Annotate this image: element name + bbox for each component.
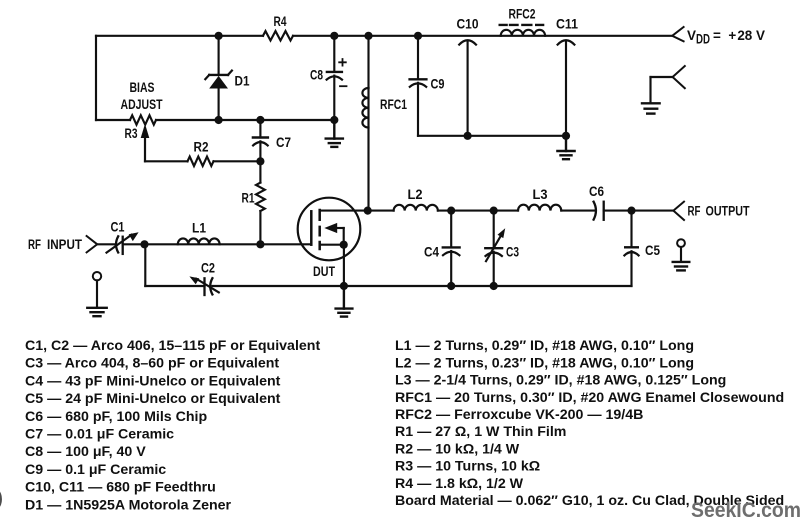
svg-text:DD: DD [696,32,710,47]
transistor DUT body-source tie [343,228,345,245]
node dot C7 bottom / R2-R1 junction [256,157,264,165]
svg-text:C1, C2 — Arco 406, 15–115 pF o: C1, C2 — Arco 406, 15–115 pF or Equivale… [25,338,320,354]
capacitor C2 (variable) [189,276,218,295]
svg-text:RFC1 — 20 Turns, 0.30″ ID, #20: RFC1 — 20 Turns, 0.30″ ID, #20 AWG Ename… [395,390,784,406]
svg-text:C11: C11 [556,17,578,32]
node dot drain/RFC1 [364,207,372,215]
wire L2 to L3 [438,210,518,212]
svg-text:C6: C6 [589,184,604,199]
svg-text:R1: R1 [242,191,255,206]
svg-text:C4: C4 [424,244,439,259]
capacitor C1 (variable) [107,232,139,254]
svg-text:C7: C7 [276,135,291,150]
resistor R4 [263,31,293,40]
ground chassis connector [642,103,660,113]
node dot C8 bottom [330,116,338,124]
wire DUT source down [343,245,345,286]
svg-text:RF: RF [28,237,41,252]
svg-text:C8 — 100 μF, 40 V: C8 — 100 μF, 40 V [25,444,146,460]
svg-text:V: V [687,28,696,43]
svg-text:R3: R3 [125,126,138,141]
svg-text:D1: D1 [235,74,250,89]
diode D1 (zener) [205,36,232,120]
node dot source at rail [340,282,348,290]
wire top rail right segment [293,35,672,37]
wire C2 rail left [145,285,204,287]
wire L3 to C6 [561,210,594,212]
node dot C4 bottom [447,282,455,290]
capacitor C7 [253,120,268,161]
svg-text:R2: R2 [194,140,209,155]
C8 polarity minus [340,85,347,87]
node dot C3 bottom [490,282,498,290]
svg-text:OUTPUT: OUTPUT [706,203,751,218]
node dot RFC1 top [364,32,372,40]
node dot C7 top [256,116,264,124]
node dot C3 top [490,207,498,215]
svg-text:C9 — 0.1 μF Ceramic: C9 — 0.1 μF Ceramic [25,462,166,478]
transistor DUT channel segments [318,210,321,249]
capacitor C8 [327,36,342,120]
svg-text:R2 — 10 kΩ, 1/4 W: R2 — 10 kΩ, 1/4 W [395,441,520,457]
svg-text:C3 — Arco 404, 8–60 pF or Equi: C3 — Arco 404, 8–60 pF or Equivalent [25,356,279,372]
input shield terminal circle [93,272,101,280]
transistor DUT body arrow [332,227,344,229]
ground below C8 [326,120,343,147]
svg-text:C7 — 0.01 μF Ceramic: C7 — 0.01 μF Ceramic [25,427,174,443]
wire C1 node down to C2 rail [144,244,146,286]
transistor DUT gate bar [310,211,313,244]
wire bias bottom to C8 [156,119,334,121]
op-amp DUT MOSFET circle [298,198,361,261]
node dot C10 bottom [464,132,472,140]
ground input shield [87,308,106,316]
svg-text:L1 — 2 Turns, 0.29″ ID, #18 AW: L1 — 2 Turns, 0.29″ ID, #18 AWG, 0.10″ L… [395,338,694,354]
node dot D1 bottom [215,116,223,124]
wire drain node to L2 [368,210,394,212]
svg-text:D1 — 1N5925A Motorola Zener: D1 — 1N5925A Motorola Zener [25,498,232,514]
svg-text:R4 — 1.8 kΩ, 1/2 W: R4 — 1.8 kΩ, 1/2 W [395,476,524,492]
svg-text:RFC2 — Ferroxcube VK-200 — 19/: RFC2 — Ferroxcube VK-200 — 19/4B [395,407,643,423]
svg-text:BIAS: BIAS [130,80,155,95]
node dot C5 top [627,207,635,215]
R3 wiper arrow [144,133,146,161]
svg-text:L2 — 2 Turns, 0.23″ ID, #18 AW: L2 — 2 Turns, 0.23″ ID, #18 AWG, 0.10″ L… [395,355,694,371]
svg-text:INPUT: INPUT [47,237,83,252]
svg-text:C3: C3 [506,244,519,259]
svg-text:C6 — 680 pF, 100 Mils Chip: C6 — 680 pF, 100 Mils Chip [25,409,207,425]
svg-text:DUT: DUT [313,264,336,279]
parts list right column [395,338,784,509]
svg-text:C10, C11 — 680 pF Feedthru: C10, C11 — 680 pF Feedthru [25,480,216,496]
svg-text:C2: C2 [201,260,215,275]
wire top rail left segment [96,35,263,37]
wire C1 to gate [123,243,312,245]
RFC2 shield dashes [500,24,543,26]
label BIAS ADJUST [121,80,164,112]
node dot R1 bottom [256,240,264,248]
svg-text:C1: C1 [111,220,125,235]
wire C9 bottom rail [418,135,566,137]
svg-text:R3 — 10 Turns, 10 kΩ: R3 — 10 Turns, 10 kΩ [395,459,540,475]
svg-text:): ) [0,485,3,510]
inductor L2 [394,205,438,211]
ground below C11 [557,136,574,159]
capacitor C5 [624,211,638,286]
VDD terminal arrow [672,27,683,41]
svg-text:R4: R4 [274,14,287,29]
svg-text:RF: RF [688,203,701,218]
wire bias box left side [95,36,97,120]
svg-text:ADJUST: ADJUST [121,97,164,112]
svg-text:C10: C10 [457,17,479,32]
svg-text:L3: L3 [533,187,548,202]
capacitor C9 [410,36,427,136]
svg-text:L1: L1 [192,220,206,235]
transistor DUT source lead [320,244,344,246]
inductor RFC2 [501,30,545,36]
node dot C11 bottom [562,132,570,140]
transistor DUT drain lead [320,210,368,212]
RF output arrow [673,202,684,220]
capacitor C6 (series) [594,202,604,220]
wire terminal to ground [96,280,98,307]
parts list left column [25,338,320,514]
node VDD label [687,28,765,47]
chassis connector (floating) [651,66,685,103]
wire C6 to output [604,210,674,212]
svg-text:C5 — 24 pF Mini-Unelco or Equi: C5 — 24 pF Mini-Unelco or Equivalent [25,391,281,407]
node dot D1 top [215,32,223,40]
ground output shield [673,262,690,271]
svg-text:RFC1: RFC1 [380,97,407,112]
svg-text:= + 28 V: = + 28 V [713,28,765,43]
wire wiper to R2 [145,160,188,162]
resistor R1 [256,161,265,244]
wire R2 to C7 node [214,160,261,162]
svg-text:SeekIC.com: SeekIC.com [691,499,801,522]
node dot C1 right [140,240,148,248]
capacitor C10 (feedthru) [459,40,476,136]
svg-text:L2: L2 [408,187,423,202]
capacitor C11 (feedthru) [558,40,575,136]
svg-text:L3 — 2-1/4 Turns, 0.29″ ID, #1: L3 — 2-1/4 Turns, 0.29″ ID, #18 AWG, 0.1… [395,373,726,389]
resistor R3 (bias adjust pot) [130,115,156,124]
svg-text:C4 — 43 pF Mini-Unelco or Equi: C4 — 43 pF Mini-Unelco or Equivalent [25,373,281,389]
wire output terminal to ground [680,247,682,262]
svg-text:RFC2: RFC2 [509,6,536,21]
RF input arrow [87,236,98,252]
C8 polarity plus [339,59,346,66]
node dot C4 top [447,207,455,215]
wire C2 rail right [212,285,631,287]
capacitor C4 [443,211,460,286]
svg-text:C8: C8 [310,68,323,83]
svg-text:C5: C5 [645,243,660,258]
node dot DUT source [340,241,348,249]
inductor RFC1 [362,36,368,211]
resistor R2 [188,157,214,166]
ground below DUT [336,286,353,317]
node dot C8 top [330,32,338,40]
wire bias box bottom [96,119,130,121]
svg-text:C9: C9 [431,77,445,92]
capacitor C3 (variable) [485,211,505,286]
svg-text:R1 — 27 Ω, 1 W Thin Film: R1 — 27 Ω, 1 W Thin Film [395,424,566,440]
wire input to C1 [97,243,114,245]
inductor L3 [518,205,561,211]
node dot C9 top [414,32,422,40]
inductor L1 [178,238,220,244]
output shield terminal circle [677,239,685,247]
